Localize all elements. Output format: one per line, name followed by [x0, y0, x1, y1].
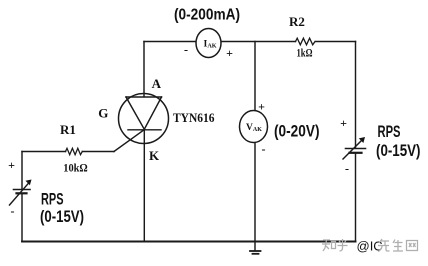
- svg-text:-: -: [262, 142, 266, 156]
- svg-text:+: +: [8, 158, 15, 172]
- watermark zhihu @IC: [322, 239, 348, 251]
- glyph zhi: [322, 240, 336, 251]
- battery bars right RPS: [346, 148, 366, 150]
- svg-text:1kΩ: 1kΩ: [297, 46, 313, 60]
- svg-text:(0-20V): (0-20V): [274, 123, 320, 141]
- svg-text:TYN616: TYN616: [173, 110, 215, 125]
- glyph sheng: [393, 240, 403, 252]
- svg-text:RPS: RPS: [378, 123, 401, 141]
- wire R1 to gate bend: [82, 151, 114, 153]
- wire anode vertical: [143, 42, 145, 97]
- wire voltmeter branch upper: [254, 42, 256, 111]
- wire ammeter to R2: [221, 41, 296, 43]
- wire bottom horizontal: [22, 241, 356, 243]
- wire gate horizontal (left RPS to R1): [22, 151, 66, 153]
- arrow right RPS (variable): [343, 139, 364, 160]
- ground: [250, 250, 261, 252]
- svg-text:+: +: [258, 100, 265, 114]
- svg-text:(0-15V): (0-15V): [40, 208, 84, 226]
- wire right branch lower vertical: [355, 153, 357, 242]
- svg-text:R2: R2: [289, 14, 305, 29]
- wire left branch vertical lower: [21, 194, 23, 242]
- battery bars left RPS: [14, 189, 31, 191]
- svg-text:K: K: [149, 148, 160, 163]
- svg-text:+: +: [340, 116, 347, 130]
- ammeter U1 circle: [196, 29, 221, 58]
- wire gate diagonal into SCR: [114, 130, 145, 152]
- svg-text:(0-200mA): (0-200mA): [174, 7, 240, 24]
- resistor R2 zigzag: [296, 38, 316, 45]
- resistor R1 zigzag: [66, 148, 83, 154]
- thyristor cathode bar: [128, 129, 161, 131]
- svg-text:-: -: [345, 162, 349, 176]
- thyristor Q1 TYN616 circle: [119, 94, 169, 144]
- svg-text:-: -: [11, 204, 15, 218]
- svg-text:A: A: [152, 76, 162, 91]
- arrow left RPS (variable): [10, 182, 31, 206]
- glyph xian: [378, 239, 390, 252]
- svg-text:+: +: [226, 46, 233, 60]
- svg-text:R1: R1: [60, 122, 76, 137]
- svg-text:10kΩ: 10kΩ: [63, 161, 88, 175]
- glyph wang: [407, 241, 418, 251]
- voltmeter U2 circle: [240, 111, 268, 143]
- svg-text:G: G: [98, 106, 108, 121]
- thyristor triangle right side: [144, 97, 161, 129]
- wire voltmeter branch lower to ground: [254, 143, 256, 251]
- svg-text:-: -: [184, 43, 188, 57]
- wire left branch vertical upper: [21, 152, 23, 190]
- wire cathode vertical: [143, 130, 145, 242]
- thyristor triangle left side: [126, 97, 144, 129]
- wire R2 to top-right corner: [316, 41, 356, 43]
- wire top-left horizontal (corner to ammeter): [144, 41, 196, 43]
- thyristor anode bar (triangle top): [126, 96, 162, 98]
- glyph hu: [338, 239, 348, 251]
- wire right branch upper vertical: [355, 42, 357, 149]
- svg-text:RPS: RPS: [41, 191, 64, 209]
- svg-text:(0-15V): (0-15V): [376, 142, 421, 160]
